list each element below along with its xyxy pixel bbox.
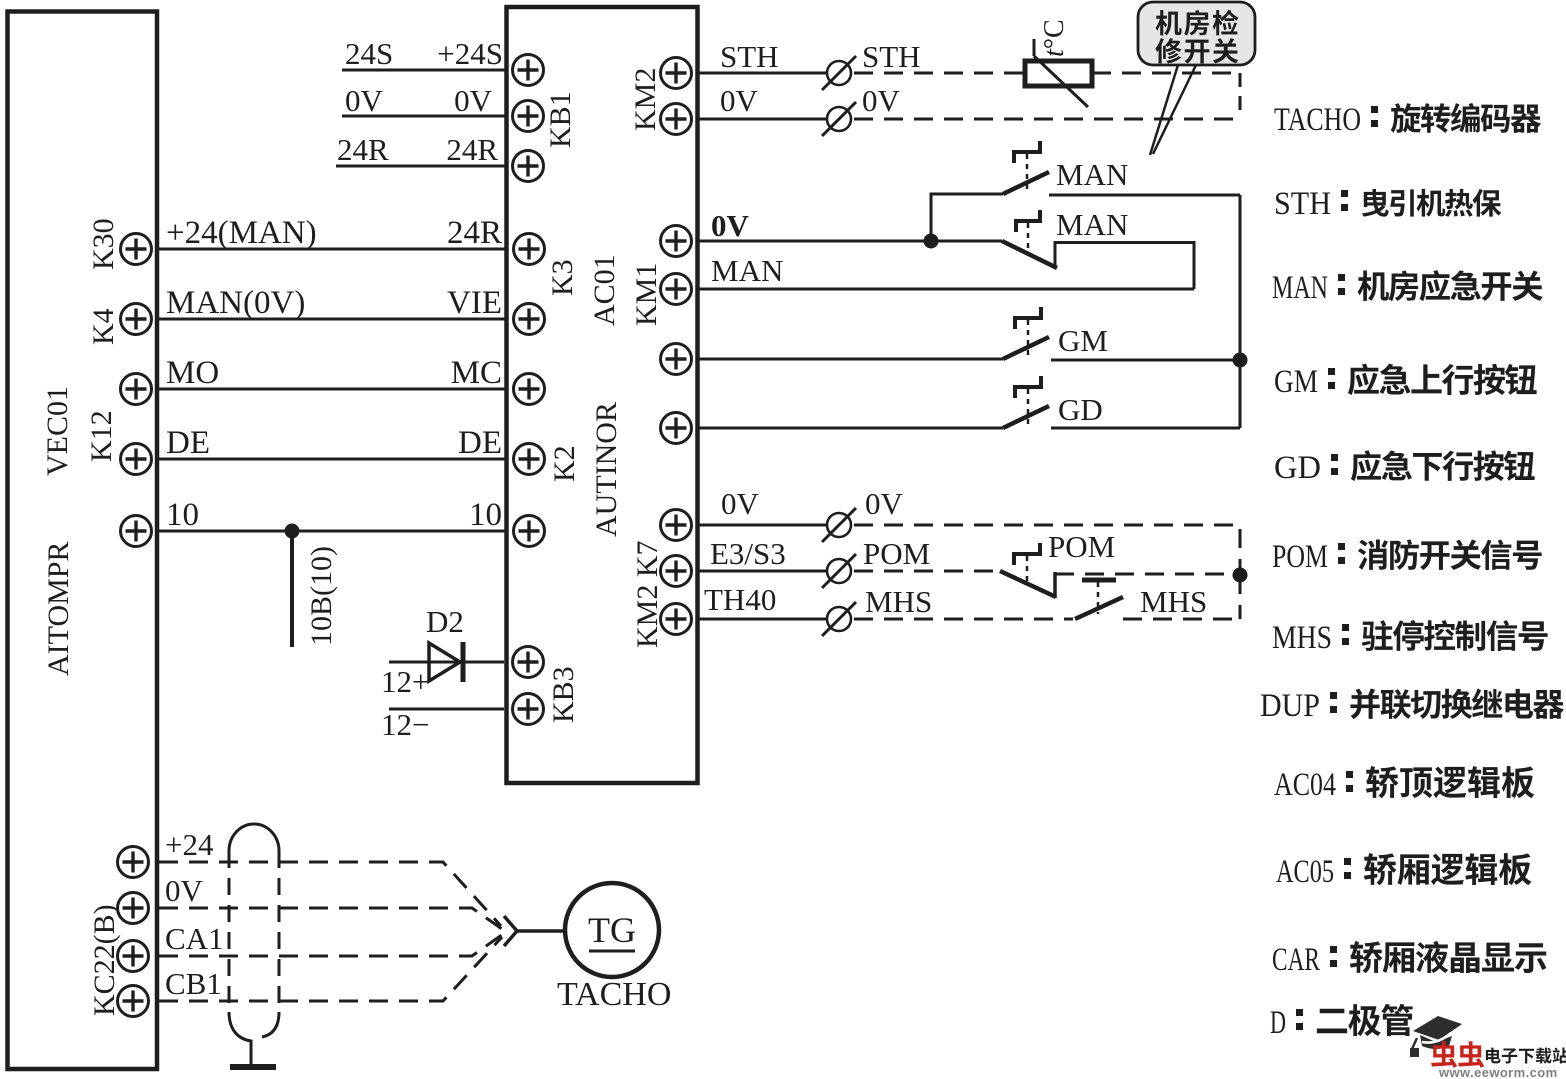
switch GD xyxy=(1003,406,1049,428)
label TACHO xyxy=(557,976,671,1013)
arrowhead xyxy=(504,916,517,946)
svg-text:GD: GD xyxy=(1058,392,1103,427)
wire 0V top xyxy=(342,115,506,118)
link GM xyxy=(1027,320,1030,355)
svg-text:MC: MC xyxy=(451,355,502,391)
wire STH dashed 2 xyxy=(1092,72,1240,75)
terminal 10 xyxy=(121,516,152,547)
wire MHS out dashed xyxy=(1123,618,1240,621)
label MHS2 xyxy=(1140,584,1207,619)
wire MHS dashed xyxy=(854,618,1073,621)
svg-text:CB1: CB1 xyxy=(165,966,222,1001)
connector MHS xyxy=(822,602,856,636)
svg-text:0V: 0V xyxy=(862,83,901,118)
label AUTINOR xyxy=(590,402,623,537)
wire GD out xyxy=(1051,427,1240,430)
label 0V pom right xyxy=(865,486,904,521)
wire 0V dashed2 xyxy=(854,118,1240,121)
switch MAN1 xyxy=(1003,172,1049,194)
terminal mid 10 xyxy=(514,516,545,547)
cable shield xyxy=(229,824,279,1064)
label STH right xyxy=(862,39,921,74)
label KM2 xyxy=(629,68,662,131)
terminal K4 xyxy=(121,304,152,335)
terminal KM1-2 xyxy=(661,274,692,305)
label CB1 xyxy=(165,966,222,1001)
wire GM xyxy=(698,358,1003,361)
label TG xyxy=(588,910,636,951)
legend AC04 xyxy=(1274,766,1534,803)
svg-text:10: 10 xyxy=(469,497,502,533)
label MAN(0V) xyxy=(166,285,305,321)
svg-text:STH: STH xyxy=(862,39,921,74)
label 0V pom left xyxy=(721,486,760,521)
switch MHS xyxy=(1075,597,1123,619)
svg-text:AC05: AC05 xyxy=(1276,854,1334,890)
svg-text:0V: 0V xyxy=(720,83,759,118)
label K30 xyxy=(87,218,120,270)
operator MAN2 xyxy=(1016,210,1040,232)
terminal KB1-1 xyxy=(513,55,544,86)
svg-text:24R: 24R xyxy=(446,132,498,167)
label DE right xyxy=(458,425,502,461)
terminal K30 xyxy=(121,234,152,265)
wire +24 dashed xyxy=(159,862,501,926)
svg-text:TH40: TH40 xyxy=(704,582,776,617)
svg-text:KC22(B): KC22(B) xyxy=(88,904,121,1016)
wire 0V pom xyxy=(698,524,827,527)
svg-text:E3/S3: E3/S3 xyxy=(710,536,786,571)
label TH40 xyxy=(704,582,776,617)
terminal mid DE xyxy=(514,444,545,475)
terminal KM1-3 xyxy=(661,344,692,375)
label 24R right xyxy=(447,215,502,251)
svg-text:K12: K12 xyxy=(85,410,118,462)
svg-text:VEC01: VEC01 xyxy=(41,386,74,476)
label AITOMPR xyxy=(42,542,75,676)
label K4 xyxy=(87,308,120,345)
connector POM xyxy=(822,554,856,588)
legend MAN xyxy=(1272,270,1543,306)
svg-text:MAN: MAN xyxy=(1056,207,1128,242)
terminal KM2K7-2 xyxy=(661,556,692,587)
label 0V right2 xyxy=(862,83,901,118)
wire 12+ xyxy=(389,661,504,664)
label 10B(10) xyxy=(305,546,338,646)
wire to tacho xyxy=(517,929,565,933)
label 24R left xyxy=(337,132,389,167)
logo eeworm xyxy=(1410,1016,1566,1079)
link POM xyxy=(1026,556,1029,582)
svg-text:MAN: MAN xyxy=(711,253,783,288)
svg-text:POM: POM xyxy=(863,536,930,571)
legend DUP xyxy=(1260,688,1564,724)
label STH left xyxy=(720,39,779,74)
wire pom-mhs bus xyxy=(1239,575,1242,619)
svg-text:24R: 24R xyxy=(447,215,502,251)
node junction GM xyxy=(1233,353,1248,368)
label KM2 K7 xyxy=(631,540,664,648)
legend GM xyxy=(1274,364,1537,400)
ground xyxy=(230,1064,276,1070)
svg-text:KM2 K7: KM2 K7 xyxy=(631,540,664,648)
svg-text:10: 10 xyxy=(166,497,199,533)
operator MAN1 xyxy=(1014,141,1040,163)
wire STH xyxy=(698,72,827,75)
svg-text:MO: MO xyxy=(166,355,219,391)
svg-text:TG: TG xyxy=(588,910,636,950)
callout balloon xyxy=(1138,2,1255,65)
label +24(MAN) xyxy=(166,215,317,251)
legend D xyxy=(1270,1004,1413,1041)
legend GD xyxy=(1274,450,1535,486)
label 12+ xyxy=(381,664,429,699)
svg-text:GD: GD xyxy=(1274,450,1321,486)
wire TH40 xyxy=(698,618,827,621)
label MAN1 xyxy=(1056,157,1128,192)
svg-text:K3: K3 xyxy=(546,259,579,296)
svg-text:24R: 24R xyxy=(337,132,389,167)
wire MAN xyxy=(698,288,1194,291)
terminal mid MC xyxy=(514,374,545,405)
label 10 xyxy=(166,497,199,533)
terminal KM2K7-1 xyxy=(661,510,692,541)
terminal KC22 0V xyxy=(118,893,149,924)
terminal KC22 CB1 xyxy=(118,986,149,1017)
wire +24(MAN) xyxy=(159,248,506,251)
label POM2 xyxy=(1048,529,1115,564)
terminal KB3-2 xyxy=(513,694,544,725)
wire E3/S3 xyxy=(698,570,827,573)
terminal KM1-1 xyxy=(661,226,692,257)
wire MAN(0V) xyxy=(159,318,506,321)
svg-text:0V: 0V xyxy=(165,873,204,908)
switch POM xyxy=(1000,571,1056,597)
tacho generator TG xyxy=(565,883,659,977)
label K2 xyxy=(548,445,581,482)
legend STH xyxy=(1274,186,1501,222)
label 0V left xyxy=(345,83,384,118)
link MAN1 xyxy=(1026,154,1029,190)
terminal KC22 +24 xyxy=(118,847,149,878)
wire 0V xyxy=(698,118,827,121)
wire emergency bus xyxy=(1239,195,1242,428)
wire CA1 dashed xyxy=(159,934,503,956)
connector 0V xyxy=(822,102,856,136)
terminal KM2-2 xyxy=(661,104,692,135)
svg-text:10B(10): 10B(10) xyxy=(305,546,338,646)
svg-text:MAN: MAN xyxy=(1272,270,1328,306)
terminal mid 24R xyxy=(514,234,545,265)
label DE xyxy=(166,425,210,461)
svg-text:12+: 12+ xyxy=(381,664,429,699)
terminal KM2-1 xyxy=(661,58,692,89)
svg-text:GM: GM xyxy=(1058,323,1108,358)
legend TACHO xyxy=(1274,102,1541,138)
thermistor RT xyxy=(1025,39,1092,107)
svg-text:MHS: MHS xyxy=(1272,620,1332,656)
terminal MO xyxy=(121,374,152,405)
operator GD xyxy=(1015,376,1041,398)
label KB3 xyxy=(547,666,580,723)
label K3 xyxy=(546,259,579,296)
wire GM out xyxy=(1051,359,1240,362)
svg-text:AITOMPR: AITOMPR xyxy=(42,542,75,676)
svg-text:TACHO: TACHO xyxy=(557,976,671,1013)
terminal KC22 CA1 xyxy=(118,941,149,972)
svg-text:TACHO: TACHO xyxy=(1274,102,1361,138)
svg-text:0V: 0V xyxy=(865,486,904,521)
switch MAN2 xyxy=(1002,241,1057,268)
connector STH xyxy=(822,56,856,90)
svg-text:MHS: MHS xyxy=(1140,584,1207,619)
svg-text:MHS: MHS xyxy=(865,584,932,619)
svg-text:POM: POM xyxy=(1048,529,1115,564)
controller box U2 AUTINOR AC01 xyxy=(507,7,698,783)
link MAN2 xyxy=(1027,223,1030,252)
diode D2 xyxy=(429,642,463,682)
svg-text:VIE: VIE xyxy=(447,285,502,321)
svg-text:DE: DE xyxy=(166,425,210,461)
svg-text:MAN(0V): MAN(0V) xyxy=(166,285,305,321)
switch GM xyxy=(1003,337,1049,359)
label MAN left xyxy=(711,253,783,288)
svg-text:+24S: +24S xyxy=(437,36,503,71)
terminal KB1-2 xyxy=(513,101,544,132)
label VEC01 xyxy=(41,386,74,476)
label t°C xyxy=(1039,19,1070,57)
svg-text:MAN: MAN xyxy=(1056,157,1128,192)
svg-text:K2: K2 xyxy=(548,445,581,482)
wire 12- xyxy=(389,708,504,711)
wire POM contact xyxy=(1055,572,1240,598)
label E3/S3 xyxy=(710,536,786,571)
label 0V right xyxy=(454,83,493,118)
svg-text:AUTINOR: AUTINOR xyxy=(590,402,623,537)
svg-text:www.eeworm.com: www.eeworm.com xyxy=(1438,1065,1558,1079)
svg-text:0V: 0V xyxy=(454,83,493,118)
svg-text:0V: 0V xyxy=(721,486,760,521)
svg-text:GM: GM xyxy=(1274,364,1318,400)
svg-text:KM2: KM2 xyxy=(629,68,662,131)
connector box U1 AITOMPR VEC01 xyxy=(8,12,158,1070)
label 24R right xyxy=(446,132,498,167)
terminal KB1-3 xyxy=(513,151,544,182)
terminal K12 xyxy=(121,444,152,475)
label 10 right xyxy=(469,497,502,533)
label MAN2 xyxy=(1056,207,1128,242)
label CA1 xyxy=(165,921,224,956)
svg-text:STH: STH xyxy=(720,39,779,74)
wire STH dashed xyxy=(854,72,1025,75)
label MC right xyxy=(451,355,502,391)
wire man riser xyxy=(931,194,1003,241)
svg-text:AC01: AC01 xyxy=(588,254,621,326)
label MO xyxy=(166,355,219,391)
terminal KM1-4 xyxy=(661,413,692,444)
wire 24R top xyxy=(336,165,506,168)
label 24S xyxy=(345,36,393,71)
legend MHS xyxy=(1272,620,1548,656)
svg-text:STH: STH xyxy=(1274,186,1331,222)
label KM1 xyxy=(630,263,663,326)
wire stub 10B(10) xyxy=(290,531,294,647)
legend CAR xyxy=(1272,941,1546,978)
link GD xyxy=(1027,389,1030,424)
label 0V man xyxy=(711,208,750,243)
svg-text:+24(MAN): +24(MAN) xyxy=(166,215,317,251)
svg-text:0V: 0V xyxy=(711,208,750,243)
svg-text:AC04: AC04 xyxy=(1274,767,1336,803)
svg-text:0V: 0V xyxy=(345,83,384,118)
svg-text:CA1: CA1 xyxy=(165,921,224,956)
terminal KB3-1 xyxy=(513,647,544,678)
wire MAN1 out xyxy=(1049,194,1240,197)
wire CB1 dashed xyxy=(159,937,502,1001)
operator GM xyxy=(1015,307,1041,329)
wire 0V pom dashed xyxy=(854,525,1240,575)
svg-text:POM: POM xyxy=(1272,539,1328,575)
svg-text:K4: K4 xyxy=(87,308,120,345)
wire 0V dashed xyxy=(159,908,502,929)
legend AC05 xyxy=(1276,853,1532,890)
wire DE xyxy=(159,458,506,461)
operator POM xyxy=(1014,543,1040,565)
wire MO xyxy=(159,388,506,391)
svg-text:KB3: KB3 xyxy=(547,666,580,723)
label +24 xyxy=(165,827,214,862)
node junction 10 xyxy=(285,524,300,539)
label GM xyxy=(1058,323,1108,358)
wire thermistor return xyxy=(1239,73,1242,119)
label K12 xyxy=(85,410,118,462)
wire POM dashed xyxy=(854,570,1000,573)
label POM right xyxy=(863,536,930,571)
svg-text:24S: 24S xyxy=(345,36,393,71)
terminal mid VIE xyxy=(514,304,545,335)
svg-text:t°C: t°C xyxy=(1039,19,1070,57)
wire 24S xyxy=(342,69,506,72)
label 0V left2 xyxy=(720,83,759,118)
label 0V xyxy=(165,873,204,908)
svg-text:D2: D2 xyxy=(426,604,464,639)
svg-text:KM1: KM1 xyxy=(630,263,663,326)
label MHS right xyxy=(865,584,932,619)
legend POM xyxy=(1272,539,1542,575)
label KC22(B) xyxy=(88,904,121,1016)
operator MHS xyxy=(1082,578,1116,583)
label D2 xyxy=(426,604,464,639)
wire 0V man xyxy=(698,240,1002,243)
svg-text:DUP: DUP xyxy=(1260,688,1320,724)
svg-text:K30: K30 xyxy=(87,218,120,270)
node junction POM xyxy=(1233,568,1248,583)
label AC01 xyxy=(588,254,621,326)
connector 0V pom xyxy=(822,508,856,542)
label +24S xyxy=(437,36,503,71)
callout pointer xyxy=(1150,65,1196,155)
node junction MAN xyxy=(924,234,939,249)
svg-text:+24: +24 xyxy=(165,827,214,862)
label 12- xyxy=(381,707,429,742)
svg-text:KB1: KB1 xyxy=(544,91,577,148)
svg-text:CAR: CAR xyxy=(1272,942,1320,978)
terminal KM2K7-3 xyxy=(661,604,692,635)
wire 10 xyxy=(159,530,506,533)
label KB1 xyxy=(544,91,577,148)
svg-text:DE: DE xyxy=(458,425,502,461)
svg-text:12−: 12− xyxy=(381,707,429,742)
svg-text:D: D xyxy=(1270,1005,1286,1041)
link MHS xyxy=(1097,582,1100,614)
wire GD xyxy=(698,427,1003,430)
label GD xyxy=(1058,392,1103,427)
label VIE right xyxy=(447,285,502,321)
wire MAN2 contact xyxy=(1055,243,1194,290)
